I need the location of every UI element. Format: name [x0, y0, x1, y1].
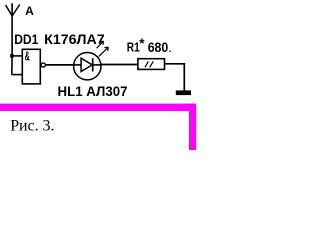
- wire gate output to LED: [45, 64, 74, 66]
- label R1: [127, 40, 140, 55]
- LED HL1 circle: [74, 52, 101, 79]
- magenta vertical rule: [189, 104, 196, 150]
- label HL1 AL307: [58, 83, 128, 99]
- resistor R1 body: [138, 59, 165, 70]
- label asterisk: [139, 36, 145, 51]
- LED cathode bar: [92, 58, 94, 71]
- LED light arrow 1: [97, 41, 104, 48]
- junction dot: [10, 54, 13, 57]
- label DD1: [14, 31, 38, 47]
- svg-text:К176ЛА7: К176ЛА7: [44, 31, 105, 47]
- label period after 680: [169, 51, 170, 52]
- label K176LA7: [44, 31, 105, 47]
- LED cathode stub wire: [93, 64, 101, 66]
- wire LED to resistor: [101, 64, 138, 66]
- wire antenna down to gate inputs: [11, 3, 13, 74]
- LED anode stub wire: [74, 64, 81, 66]
- caption Ris. 3.: [10, 117, 54, 134]
- svg-text:*: *: [139, 36, 145, 51]
- node A label: [25, 4, 34, 18]
- LED light arrow 2: [99, 47, 108, 56]
- logic gate DD1 body: [22, 49, 40, 84]
- label 680: [148, 39, 169, 55]
- gate output inversion bubble: [41, 63, 45, 67]
- wire lower gate input: [12, 74, 23, 76]
- svg-text:680: 680: [148, 39, 169, 55]
- ground: [176, 90, 191, 95]
- wire resistor to ground corner: [165, 64, 185, 91]
- svg-text:R1: R1: [127, 40, 140, 55]
- resistor power marks //: [145, 61, 153, 67]
- svg-text:A: A: [25, 4, 34, 18]
- gate & symbol: [25, 49, 30, 64]
- svg-text:DD1: DD1: [14, 31, 38, 47]
- svg-text:Рис. 3.: Рис. 3.: [10, 117, 54, 134]
- LED diode triangle: [81, 58, 92, 71]
- wire upper gate input: [12, 55, 23, 57]
- magenta horizontal rule: [0, 104, 196, 111]
- svg-text:&: &: [25, 49, 30, 64]
- antenna: [6, 5, 20, 17]
- svg-text:HL1 АЛ307: HL1 АЛ307: [58, 83, 128, 99]
